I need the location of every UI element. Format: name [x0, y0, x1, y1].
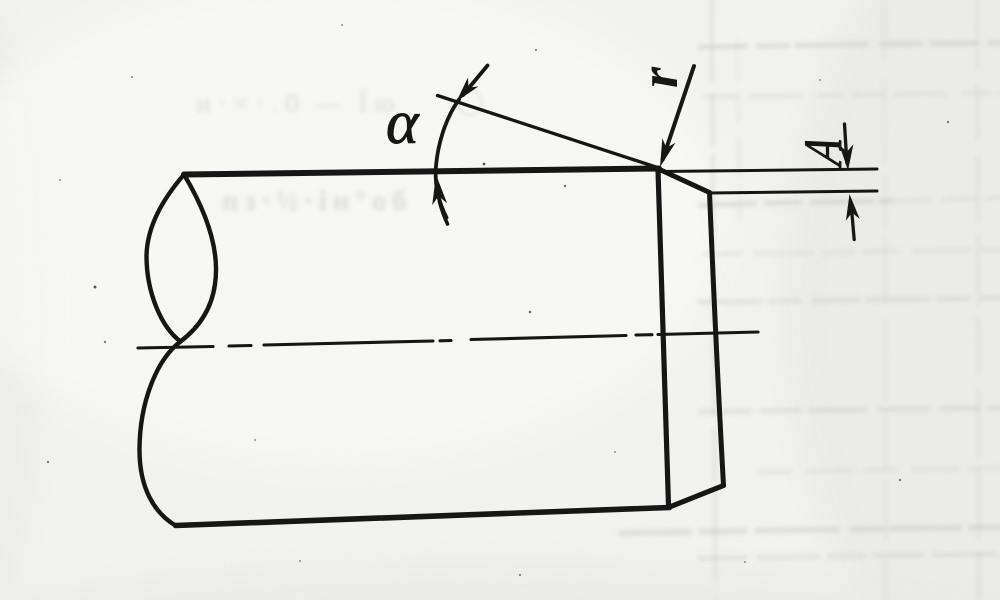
svg-text:r: r — [629, 66, 689, 88]
svg-text:и·=·.0 — Їю: и·=·.0 — Їю — [196, 88, 402, 118]
svg-text:пз·½·ін°об: пз·½·ін°об — [222, 186, 412, 217]
svg-text:α: α — [386, 89, 420, 157]
